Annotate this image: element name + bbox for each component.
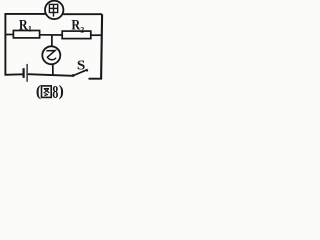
wire: top-left segment and left rail — [5, 14, 45, 75]
battery: long thin plate (positive) — [26, 64, 28, 82]
resistor R2 — [62, 31, 91, 38]
svg-text:S: S — [77, 58, 86, 73]
meter 甲 (circle) — [45, 1, 63, 19]
wire: right rail — [101, 14, 102, 78]
meter 甲 glyph 甲 — [49, 4, 57, 16]
wire: left rail to resistor R1 — [5, 34, 13, 36]
svg-text:1: 1 — [28, 25, 32, 34]
wire: battery to switch pivot (bottom rail) — [28, 74, 73, 76]
svg-text:(: ( — [36, 83, 41, 100]
meter 乙 (circle) — [42, 46, 60, 64]
svg-text:2: 2 — [80, 26, 84, 35]
caption: 图 glyph drawn — [42, 86, 52, 98]
wire: bottom-left segment to battery — [5, 73, 23, 76]
wire: meter 乙 to bottom rail — [52, 64, 54, 75]
resistor R1 — [13, 31, 39, 38]
svg-text:R: R — [19, 16, 28, 32]
wire: switch fixed contact stub to bottom-right corner — [89, 78, 103, 80]
svg-text:): ) — [59, 83, 64, 100]
wire: top-right segment — [63, 13, 102, 15]
svg-text:R: R — [71, 16, 80, 32]
switch S: blade (open) — [73, 70, 87, 76]
wire: R1 to R2 with junction — [40, 34, 63, 36]
meter 乙 glyph 乙 — [46, 51, 56, 60]
wire: R2 to right rail — [91, 34, 102, 36]
wire: junction drop to meter 乙 — [51, 35, 53, 47]
battery: short thick plate (negative) — [23, 68, 25, 78]
switch S: pivot dot — [72, 74, 75, 77]
